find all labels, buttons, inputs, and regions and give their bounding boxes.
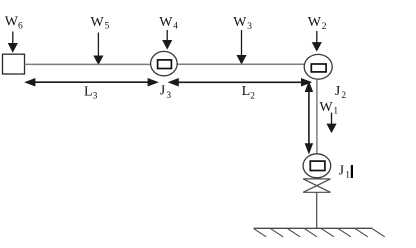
label W5 (91, 15, 110, 32)
joint J2 circle (304, 54, 332, 79)
svg-text:L: L (84, 84, 93, 99)
svg-text:4: 4 (173, 22, 178, 32)
label W1 (319, 100, 338, 117)
svg-text:2: 2 (341, 91, 346, 101)
label W6 (5, 15, 23, 32)
ground line (254, 227, 373, 229)
dimension vertical double arrow (J2 to J1) (306, 83, 312, 152)
svg-text:2: 2 (322, 22, 327, 32)
joint J1 inner rect (310, 161, 325, 170)
joint J3 circle (151, 51, 178, 75)
load arrow W5 (94, 33, 102, 64)
svg-text:1: 1 (345, 171, 350, 181)
label W4 (159, 15, 178, 32)
svg-text:3: 3 (93, 92, 98, 102)
load arrow W1 (328, 113, 336, 132)
label W2 (308, 15, 327, 32)
end-effector block (3, 54, 25, 74)
joint J2 inner rect (311, 64, 326, 72)
dimension L2 double arrow (170, 79, 310, 85)
svg-text:W: W (91, 15, 105, 30)
joint J1 circle (303, 154, 331, 178)
base bowtie (revolute base symbol) (303, 179, 330, 192)
load arrow W2 (313, 31, 321, 50)
load arrow W4 (163, 30, 171, 48)
dimension L3 double arrow (26, 79, 156, 85)
label L2 (242, 84, 256, 101)
svg-text:L: L (242, 84, 251, 99)
text cursor bar after J1 (351, 165, 353, 178)
label J3 (160, 84, 172, 101)
svg-text:W: W (233, 15, 247, 30)
load arrow W6 (9, 32, 17, 52)
svg-text:W: W (5, 15, 19, 30)
svg-text:W: W (159, 15, 173, 30)
link 1 (J2 to J1, vertical) (316, 79, 318, 154)
svg-text:J: J (335, 84, 341, 99)
svg-text:2: 2 (250, 91, 255, 101)
ground hatching (254, 229, 385, 237)
svg-text:1: 1 (333, 107, 338, 117)
svg-text:3: 3 (247, 22, 252, 32)
svg-text:J: J (160, 84, 166, 99)
label J1 (339, 163, 351, 180)
base stem (316, 192, 318, 228)
link 3 (block to J3) (25, 63, 152, 65)
label L3 (84, 84, 98, 101)
label W3 (233, 15, 252, 32)
svg-text:W: W (308, 15, 322, 30)
link 2 (J3 to J2) (177, 63, 305, 65)
svg-text:3: 3 (166, 91, 171, 101)
svg-text:J: J (339, 163, 345, 178)
load arrow W3 (238, 30, 246, 63)
svg-text:5: 5 (105, 22, 110, 32)
svg-text:W: W (319, 100, 333, 115)
joint J3 inner rect (158, 60, 172, 69)
label J2 (335, 84, 347, 101)
svg-text:6: 6 (18, 21, 23, 31)
